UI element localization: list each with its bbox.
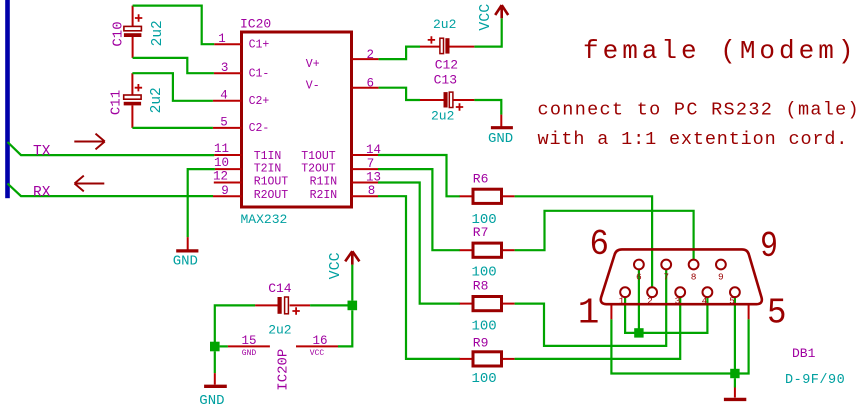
wire TX net [8, 142, 215, 155]
pin 1 C1+ [214, 32, 269, 52]
pin 5 C2- [213, 116, 269, 136]
junction (pins 1/4/6) [634, 328, 643, 337]
svg-text:female (Modem): female (Modem) [583, 36, 857, 66]
svg-text:R7: R7 [473, 225, 489, 240]
DB9 pin 3 pad [675, 287, 685, 306]
svg-text:GND: GND [242, 349, 257, 358]
svg-text:2u2: 2u2 [149, 87, 165, 113]
svg-text:T2IN: T2IN [254, 163, 282, 176]
svg-text:C2+: C2+ [249, 95, 270, 108]
wire DB9 pin 5 down [734, 297, 736, 373]
op-amp? no: IC U IC20 MAX232 body [242, 32, 352, 207]
wire pin 2 to C12 [379, 47, 420, 60]
wire RX net [8, 184, 214, 197]
svg-text:100: 100 [472, 371, 497, 387]
wire pin 14 to R6 [378, 155, 460, 196]
svg-text:with a 1:1 extention cord.: with a 1:1 extention cord. [538, 129, 849, 150]
wire shield/pin5 to GND [611, 319, 748, 373]
wire C13 to GND [474, 100, 501, 115]
wire C11+ to pin 4 [132, 73, 213, 101]
pin 4 C2+ [213, 89, 270, 109]
resistor R7 [460, 243, 515, 257]
svg-text:1: 1 [619, 296, 625, 307]
pin 6 V- [306, 76, 379, 92]
svg-text:V+: V+ [306, 58, 320, 71]
wire C14 right to VCC [310, 304, 352, 306]
svg-text:R9: R9 [473, 335, 489, 350]
svg-text:V-: V- [306, 80, 320, 93]
wire pin 7 to R7 [378, 169, 460, 250]
svg-text:DB1: DB1 [792, 346, 816, 361]
pin 10 T2IN [214, 156, 281, 176]
bus B1 (serial TX/RX bus) [5, 0, 10, 198]
wire C11- to pin 5 [132, 127, 213, 129]
svg-text:R6: R6 [473, 172, 489, 187]
svg-text:5: 5 [767, 293, 787, 334]
svg-text:2u2: 2u2 [150, 20, 166, 46]
pin 15 GND (IC20P) [228, 334, 270, 358]
svg-text:2: 2 [367, 48, 375, 62]
svg-text:T1IN: T1IN [254, 150, 282, 163]
svg-text:4: 4 [220, 89, 228, 103]
svg-text:GND: GND [199, 393, 224, 409]
capacitor C14 [255, 297, 310, 315]
svg-text:7: 7 [663, 272, 669, 283]
svg-text:C10: C10 [111, 21, 127, 46]
svg-text:VCC: VCC [477, 4, 494, 31]
ground GND (DB9 shield) [724, 388, 746, 400]
svg-text:3: 3 [221, 61, 229, 75]
svg-text:3: 3 [675, 296, 681, 307]
svg-text:12: 12 [213, 169, 228, 183]
svg-text:TX: TX [33, 144, 51, 160]
svg-text:2: 2 [647, 296, 653, 307]
wire junction up to VCC [351, 265, 353, 301]
svg-text:GND: GND [488, 131, 513, 147]
svg-text:9: 9 [221, 184, 229, 198]
svg-text:R8: R8 [473, 278, 489, 293]
pin 8 R2IN [310, 184, 378, 202]
DB9 pin 6 pad [634, 260, 644, 283]
shield stub left [610, 306, 612, 320]
supply VCC (middle) [345, 251, 359, 264]
svg-text:C1+: C1+ [249, 39, 270, 52]
DB9 pin 9 pad [716, 260, 726, 283]
DB9 pin 2 pad [647, 287, 657, 306]
svg-text:10: 10 [214, 156, 229, 170]
svg-text:R1IN: R1IN [310, 175, 338, 188]
svg-text:2u2: 2u2 [268, 322, 291, 337]
DB9 pin 7 pad [661, 260, 671, 283]
wire R8 to DB9 pin 7 [515, 270, 667, 346]
supply VCC (top) [495, 5, 508, 18]
pin 11 T1IN [214, 142, 281, 163]
svg-text:11: 11 [214, 142, 229, 156]
wire pin 16 to VCC [338, 310, 352, 346]
capacitor C10 [124, 6, 142, 58]
svg-text:15: 15 [241, 334, 256, 348]
svg-text:1: 1 [218, 32, 226, 46]
svg-text:6: 6 [590, 224, 610, 265]
svg-text:9: 9 [760, 226, 778, 267]
svg-text:9: 9 [718, 272, 724, 283]
pin 2 V+ [306, 48, 379, 71]
svg-text:C11: C11 [108, 90, 124, 115]
svg-text:GND: GND [173, 253, 198, 269]
resistor R6 [460, 189, 515, 203]
svg-text:D-9F/90: D-9F/90 [785, 373, 845, 388]
pin 3 C1- [214, 61, 269, 81]
svg-text:4: 4 [702, 296, 708, 307]
junction (pin 5 / shield) [730, 369, 739, 378]
capacitor C11 [124, 73, 142, 128]
svg-text:T1OUT: T1OUT [301, 150, 336, 163]
connector DB1 D-9F/90 body [601, 249, 762, 304]
svg-text:1: 1 [578, 292, 600, 333]
wire pin 13 to R8 [378, 183, 460, 304]
pin 16 VCC (IC20P) [296, 334, 338, 358]
svg-text:16: 16 [312, 334, 327, 348]
svg-text:8: 8 [691, 272, 697, 283]
wire pin 8 to R9 [378, 196, 460, 359]
wire pin 10 to GND [188, 169, 215, 237]
ground GND (IC20P) [204, 373, 227, 386]
wire R6 to DB9 pin 2 [515, 196, 653, 287]
shield stub right [748, 306, 750, 320]
svg-text:C1-: C1- [249, 68, 270, 81]
svg-text:2u2: 2u2 [433, 17, 456, 32]
svg-text:RX: RX [33, 185, 51, 201]
svg-text:IC20P: IC20P [275, 349, 291, 391]
svg-text:connect to PC RS232 (male): connect to PC RS232 (male) [538, 100, 859, 121]
svg-text:5: 5 [729, 296, 735, 307]
wire junction to ground [734, 378, 736, 387]
pin 13 R1IN [310, 170, 381, 188]
capacitor C12 [420, 36, 474, 53]
wire C14 left to pin15 node [215, 305, 255, 346]
svg-text:MAX232: MAX232 [241, 212, 288, 227]
pin 9 R2OUT [213, 184, 288, 202]
wire junction to pin 15 [220, 345, 228, 347]
svg-text:7: 7 [367, 157, 375, 171]
ground GND (T2IN) [176, 237, 198, 251]
resistor R9 [460, 352, 515, 366]
svg-text:VCC: VCC [327, 252, 344, 279]
ground GND (C13) [491, 115, 513, 128]
svg-text:VCC: VCC [310, 349, 325, 358]
svg-text:C2-: C2- [249, 122, 270, 135]
pin 12 R1OUT [213, 169, 288, 188]
wire R7 to DB9 pin 8 [515, 211, 694, 260]
svg-text:C14: C14 [268, 281, 292, 296]
svg-text:R2IN: R2IN [310, 189, 338, 202]
arrow RX direction [75, 176, 105, 192]
capacitor C13 [420, 92, 474, 111]
wire C10- to pin 3 [133, 58, 214, 73]
svg-text:100: 100 [472, 318, 497, 334]
svg-text:2u2: 2u2 [431, 109, 454, 124]
junction (C14/VCC/pin16) [348, 301, 358, 311]
DB9 pin 8 pad [689, 260, 699, 283]
resistor R8 [460, 297, 515, 311]
DB9 pin 1 pad [619, 287, 630, 306]
wire junction to ground [214, 351, 216, 373]
pin 7 T2OUT [301, 157, 378, 176]
pin 14 T1OUT [301, 143, 381, 163]
wire DB9 pins 1-4 tie [625, 297, 707, 333]
svg-text:8: 8 [368, 184, 376, 198]
svg-text:6: 6 [636, 272, 642, 283]
svg-text:C12: C12 [435, 58, 458, 73]
svg-text:IC20: IC20 [240, 17, 271, 32]
svg-text:R1OUT: R1OUT [254, 175, 289, 188]
svg-text:R2OUT: R2OUT [254, 189, 289, 202]
wire DB9 pin 6 to tie [638, 270, 640, 333]
wire pin 6 to C13 [379, 88, 420, 100]
svg-text:C13: C13 [434, 72, 457, 87]
junction (C14/pin15/GND) [210, 342, 220, 352]
wire R9 to DB9 pin 3 [515, 297, 681, 359]
DB9 pin 4 pad [702, 287, 713, 306]
arrow TX direction [74, 134, 105, 150]
wire C12 to VCC [474, 18, 501, 46]
svg-text:5: 5 [220, 116, 228, 130]
svg-text:6: 6 [367, 76, 375, 90]
svg-text:T2OUT: T2OUT [301, 163, 336, 176]
DB9 pin 5 pad [729, 287, 740, 306]
wire C10+ to pin 1 [133, 6, 215, 45]
